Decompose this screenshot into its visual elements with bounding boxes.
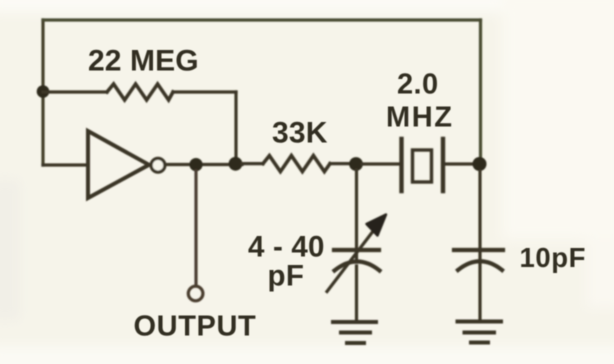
svg-text:33K: 33K [272, 117, 328, 150]
svg-text:22 MEG: 22 MEG [88, 45, 199, 78]
wire: trimmer cap down to ground [355, 266, 358, 320]
wire: inverter output to 33K [167, 163, 243, 166]
wire: left vertical (top corner down to inverter input) [41, 20, 44, 165]
svg-text:MHZ: MHZ [386, 102, 454, 134]
ground: left ground symbol [333, 320, 376, 324]
crystal Y1: left plate [399, 139, 403, 191]
wire: node E down to 10pF cap [478, 171, 481, 260]
svg-text:2.0: 2.0 [397, 69, 439, 101]
crystal Y1: right plate [441, 139, 445, 191]
node E: junction crystal / feedback / 10pF [473, 157, 487, 171]
wire: vertical down from 22MEG to output line [234, 92, 237, 163]
capacitor C1 4-40pF: curved bottom plate [335, 262, 380, 271]
svg-text:OUTPUT: OUTPUT [134, 311, 257, 343]
svg-text:10pF: 10pF [520, 242, 587, 273]
crystal Y1: body rectangle [413, 150, 432, 182]
capacitor C2 10pF: curved bottom plate [458, 261, 502, 270]
capacitor C1 4-40pF: adjustment arrow [327, 226, 377, 292]
node D: junction 33K / crystal / trimmer [349, 157, 363, 171]
wire: crystal right plate to node E [445, 162, 478, 165]
wire: inverter input from left vertical [43, 163, 87, 166]
resistor R2 33K [263, 156, 330, 172]
wire: right vertical from top corner to crystal node [479, 20, 482, 164]
wire: node C to 33K resistor [242, 162, 263, 165]
wire: node D to crystal left plate [362, 162, 400, 165]
wire: node D down to trimmer cap [355, 170, 358, 262]
terminal: OUTPUT open circle [188, 286, 203, 301]
node B: output node (to OUTPUT terminal) [189, 158, 202, 171]
inverter U1 output bubble [151, 158, 165, 172]
ground: right ground symbol [458, 320, 502, 324]
node C: junction with 22MEG feedback [229, 157, 243, 171]
wire: output node down to terminal [194, 171, 197, 285]
wire: 10pF down to ground [478, 264, 481, 319]
svg-text:pF: pF [268, 260, 305, 293]
wire: from node A right to 22MEG resistor [43, 90, 107, 93]
wire: 33K right end to node D [330, 162, 356, 165]
capacitor C2 10pF: top plate [454, 248, 503, 252]
resistor R1 22 MEG [107, 84, 173, 100]
capacitor C1 4-40pF: top plate [334, 248, 379, 252]
inverter U1 (logic inverter triangle) [88, 131, 149, 198]
wire: top horizontal feedback [43, 18, 481, 21]
node A: junction at left (feedback / 22MEG / inverter input) [37, 85, 50, 98]
wire: 22MEG right end to corner [173, 90, 236, 93]
